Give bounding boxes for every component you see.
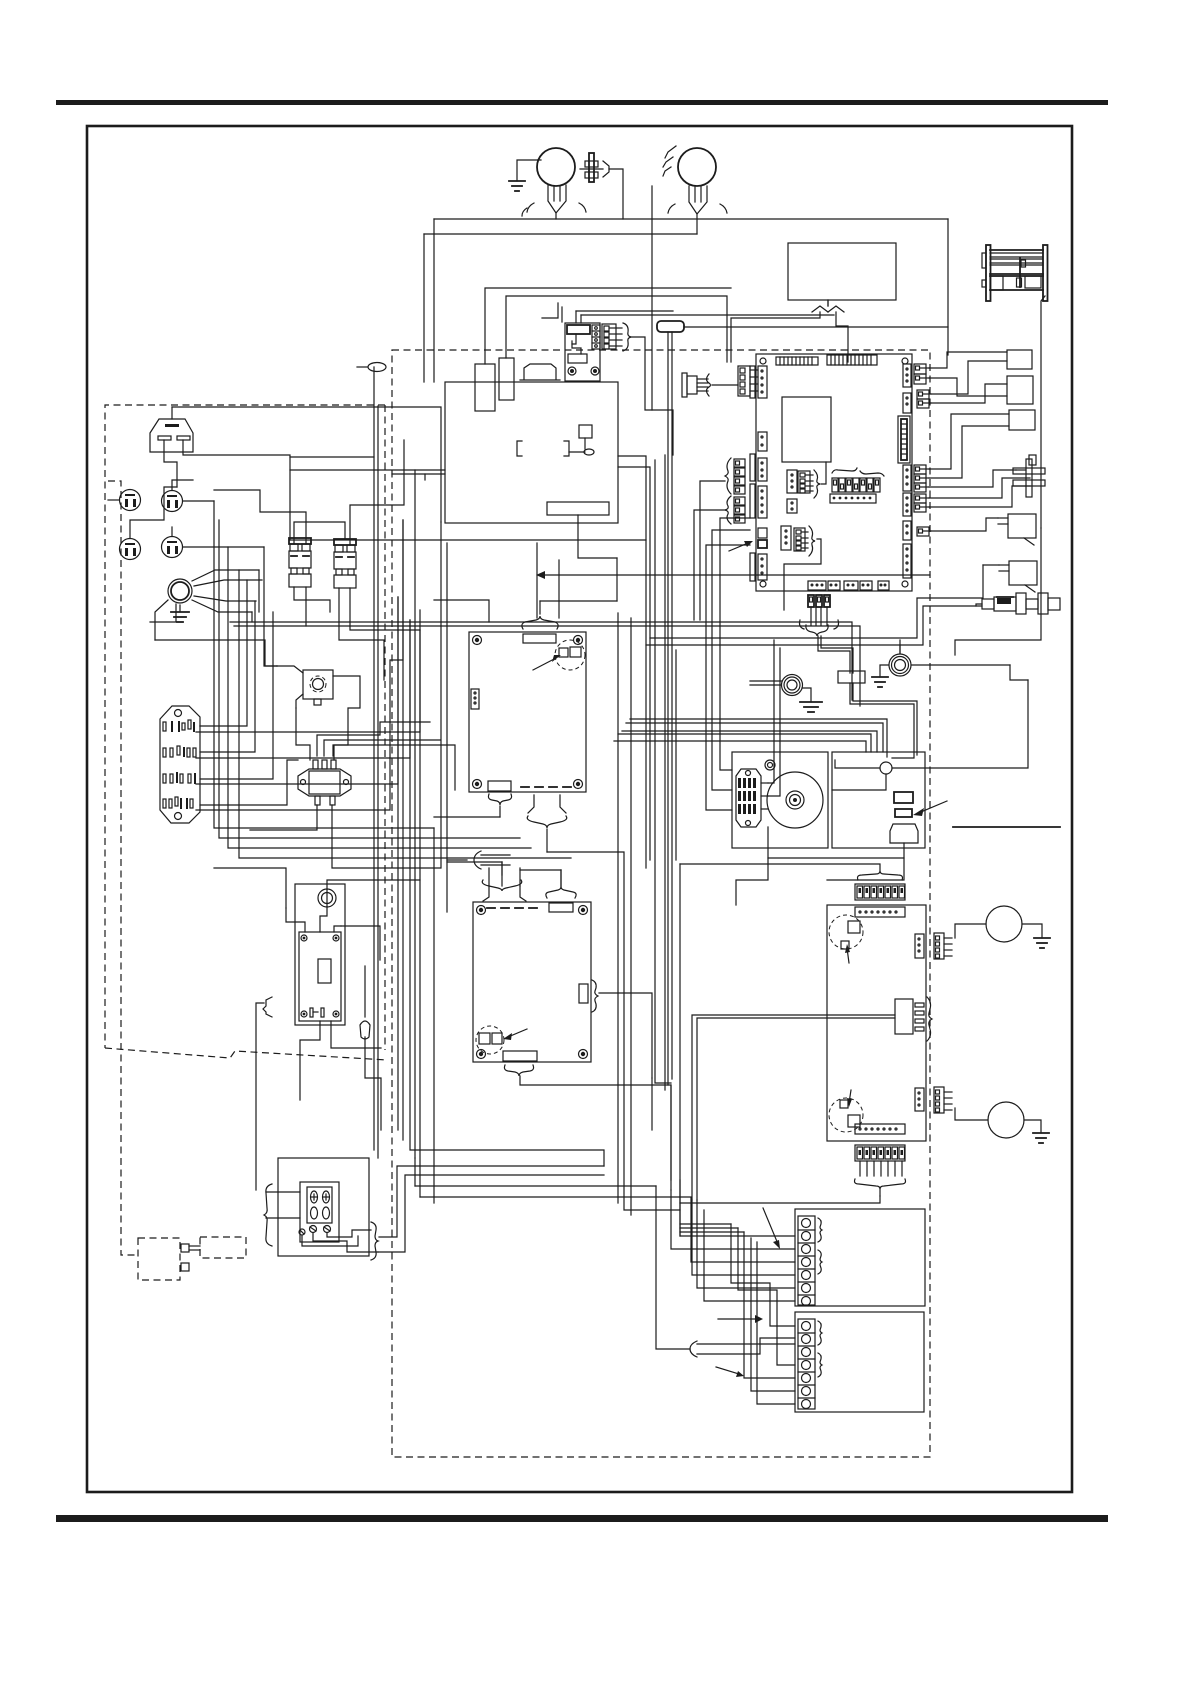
wire breaker feeds <box>214 440 420 680</box>
dashed accessory box2 <box>200 1237 246 1258</box>
door interlock box <box>278 1158 369 1256</box>
center vertical harness <box>398 470 604 1203</box>
motor M4 (fan) <box>955 1102 1049 1143</box>
relay unit RY1 <box>295 884 345 1025</box>
wire cap leads <box>485 288 731 364</box>
pcb right edge connectors <box>898 364 911 578</box>
capacitor C2 <box>499 358 514 400</box>
brace right door box <box>302 1222 378 1260</box>
wires into RB-A <box>415 1158 880 1404</box>
ground (motor M1) <box>509 160 541 191</box>
socket SO1 <box>108 490 141 511</box>
wire plug feed <box>172 407 441 522</box>
wire branch <box>289 470 291 540</box>
connector CN-L2 <box>758 432 767 451</box>
motor M1 (drain pump) <box>522 148 586 219</box>
solenoid valve SV1 <box>277 666 333 708</box>
arrow callout PCB1 <box>533 655 561 670</box>
inlet ring (cord bushing) <box>150 570 262 640</box>
wire bus A <box>434 218 948 220</box>
connector strip top1 <box>776 357 818 365</box>
wire S1 <box>929 352 1007 368</box>
wire bus mid1 <box>230 622 852 700</box>
connector CN-L1 <box>758 366 767 398</box>
wire right drop1 <box>955 528 1041 655</box>
brace above PCB1 <box>522 601 558 629</box>
tab group TR1 (right of pcb) <box>914 364 931 408</box>
wire arrow feedback <box>536 571 930 579</box>
display PCB3 <box>827 905 926 1141</box>
brace under program unit <box>812 300 844 312</box>
fuse F1 <box>657 321 948 1085</box>
connector pair CN-P3 <box>781 526 821 610</box>
arrow callout RB-B top <box>718 1315 763 1323</box>
left harness bundle <box>200 501 571 858</box>
circuit breaker CB1 <box>289 538 311 587</box>
dashed enclosure (control box) <box>392 350 930 1457</box>
switch box S2 <box>1007 376 1033 404</box>
wires door box right <box>378 1166 604 1252</box>
relay box RB-A <box>795 1209 925 1306</box>
grommet G1 <box>750 675 822 713</box>
wires relay unit leads <box>286 907 341 932</box>
bottom rule bar <box>56 1515 1108 1522</box>
wire grid mid right <box>290 456 1028 905</box>
connector strip top2 <box>827 355 877 365</box>
thermostat TH2 <box>998 514 1036 545</box>
socket SO3 <box>120 487 178 560</box>
long verticals right of PCB2 <box>652 455 680 1236</box>
dip switch bank SW1 <box>830 468 884 503</box>
wire probe <box>976 604 982 606</box>
temp sensor probe <box>982 593 1060 614</box>
connector pair CN-P1 <box>787 462 826 498</box>
wires program unit to boards <box>731 300 848 362</box>
gear motor connector <box>736 769 768 827</box>
tab group right PCB3 top <box>934 933 952 959</box>
brace left door box <box>264 1184 300 1246</box>
thermostat TH3 <box>999 561 1037 592</box>
ground (inlet) <box>171 605 189 622</box>
connector CN-L6 <box>758 554 767 580</box>
3pin connector below pcb <box>800 595 839 636</box>
motor connector MC1 <box>682 373 738 397</box>
wires pump area <box>768 680 1028 858</box>
wire drop left B <box>423 234 425 382</box>
inverter PCB2 <box>473 902 591 1062</box>
wire feeds to gear box <box>706 518 780 810</box>
pump box right <box>832 752 925 848</box>
wire drop left A <box>433 219 435 382</box>
noise filter NF1 <box>298 760 351 805</box>
arrow callout (pump box) <box>913 801 947 816</box>
wire runs to PCB2 top <box>447 862 561 887</box>
wire CN-A out <box>630 337 673 455</box>
grommet G2 <box>872 640 1010 687</box>
wire transformer drop <box>1041 296 1045 528</box>
brace right PCB2 <box>592 980 652 1078</box>
dashed partition line <box>108 481 138 1255</box>
transformer T1 <box>982 245 1048 301</box>
page border frame <box>87 126 1072 1492</box>
connector CN-L4 <box>758 486 767 518</box>
callout line right <box>953 826 1060 828</box>
dashed accessory box1 <box>138 1238 180 1280</box>
cable marker <box>357 363 386 372</box>
thermostat TH1 <box>1013 455 1045 497</box>
connector block on power unit <box>520 364 560 380</box>
brace left of PCB2 <box>447 851 510 869</box>
junction node <box>880 762 892 774</box>
wire bus B <box>424 233 697 235</box>
wire RB1 <box>818 636 917 758</box>
wire bus mid2 <box>234 626 860 706</box>
wire TH3 <box>983 564 999 566</box>
wire plug L <box>164 440 177 487</box>
motor M3 (fan) <box>955 906 1050 948</box>
arrow callout RB-B mid <box>716 1367 744 1377</box>
brace below PCB2 <box>504 1065 671 1180</box>
accessory tabs <box>181 1244 200 1271</box>
top rule bar <box>56 100 1108 105</box>
terminal board TB1 <box>160 706 200 823</box>
brace wires into RB-B <box>656 1186 795 1357</box>
wire runs to PCB1 top <box>434 515 617 622</box>
motor M2 (wash motor) <box>663 146 727 234</box>
wire runs below PCB1 <box>434 558 680 1215</box>
wire relay unit drops <box>214 868 420 1100</box>
inverter PCB1 <box>469 632 586 792</box>
switch box S3 <box>1009 410 1035 430</box>
wire noise filter drops <box>250 722 455 868</box>
tab group TR2 <box>914 465 931 536</box>
connector icon (pump coupler) <box>580 153 609 182</box>
tab stack CN-L3 ext <box>700 458 745 620</box>
box (program unit) <box>788 243 896 300</box>
connector CN-B 4pin <box>738 366 758 396</box>
braces above PCB2 <box>482 862 576 901</box>
cable clamp <box>360 966 381 1130</box>
socket SO2 <box>162 480 215 512</box>
resistor block RB1 <box>838 671 865 683</box>
connector block above PCB3 <box>680 864 905 900</box>
tab group right PCB3 bottom <box>934 1087 952 1113</box>
relay box RB-B <box>795 1312 924 1412</box>
arrow callout PCB2 <box>503 1029 527 1040</box>
socket SO4 <box>162 527 265 558</box>
connector CN-L5 <box>758 528 767 538</box>
wire solenoid feeds <box>155 640 360 760</box>
wire TH2 <box>931 518 998 531</box>
capacitor C1 <box>475 364 495 411</box>
wire coupler to node <box>609 169 623 219</box>
connector CN-L3 <box>758 458 767 481</box>
dashed enclosure (left power section) <box>105 405 385 1048</box>
connector block below PCB3 <box>855 1145 906 1196</box>
arrow callout RB-A <box>763 1208 780 1249</box>
power unit box <box>445 382 618 523</box>
pcb inner region <box>782 397 831 462</box>
power plug P1 <box>150 407 193 452</box>
gear motor assembly <box>732 752 828 848</box>
dashed diagonal boundary <box>105 1048 387 1060</box>
tab header (left of pcb) <box>750 366 755 398</box>
door switch box S1 <box>1007 350 1032 369</box>
brace below PCB1 left <box>488 794 511 817</box>
wire M2 aux drop <box>651 186 653 410</box>
connector CN-A 4pin <box>602 323 631 351</box>
wires relay block feeds <box>542 303 834 323</box>
tab stack CN-L4 ext <box>694 496 745 620</box>
harness terminal rows <box>196 520 420 810</box>
main control PCB <box>756 354 912 591</box>
wire plug N <box>183 440 445 470</box>
relay block K1 <box>565 323 600 381</box>
wire S3 <box>929 414 1009 469</box>
wire drop right A <box>947 219 949 355</box>
wire TH1 <box>929 470 1030 507</box>
arrow callout CN-L5 <box>729 541 753 551</box>
wire S2 <box>931 384 1007 403</box>
circuit breaker CB2 <box>334 539 356 588</box>
connector mid right PCB3 <box>692 997 932 1200</box>
connector CN-P2 <box>787 499 797 513</box>
brace (relay unit left) <box>256 997 272 1190</box>
brace below PCB1 mid <box>527 795 567 852</box>
pcb bottom connectors <box>808 581 889 590</box>
wire riser pair <box>290 367 378 1158</box>
